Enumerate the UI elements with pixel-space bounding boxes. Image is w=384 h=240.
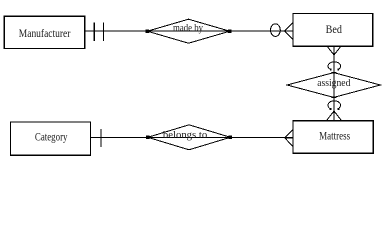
wire — [91, 137, 294, 139]
entity Mattress — [293, 121, 373, 154]
zero circle on assigned/Mattress wire — [328, 101, 341, 110]
junction dot at belongs-to left vertex — [146, 136, 149, 139]
relationship diamond "belongs to" — [148, 125, 231, 150]
svg-text:belongs to: belongs to — [163, 129, 208, 141]
svg-text:Bed: Bed — [326, 22, 342, 36]
entity Bed — [293, 14, 373, 47]
entity Category — [11, 122, 91, 155]
relationship diamond "assigned" — [287, 73, 380, 98]
relationship diamond "made by" — [147, 19, 230, 43]
wire — [333, 46, 335, 121]
crow's foot (many) at Bed bottom edge — [327, 46, 341, 55]
crow's foot (many) at Bed left edge — [285, 23, 293, 40]
svg-text:assigned: assigned — [317, 77, 351, 89]
cardinality bar (one) at Category — [100, 129, 102, 147]
crow's foot (many) at Mattress left edge — [285, 129, 293, 147]
svg-text:Mattress: Mattress — [319, 129, 350, 143]
cardinality bars (one-and-only-one) at Manufacturer — [94, 22, 103, 40]
svg-text:Category: Category — [35, 130, 68, 144]
junction dot at made-by right vertex — [228, 30, 231, 33]
wire — [85, 30, 293, 32]
junction dot at made-by left vertex — [146, 30, 149, 33]
crow's foot (many) at Mattress top edge — [327, 111, 342, 121]
entity Manufacturer — [4, 16, 84, 48]
svg-text:Manufacturer: Manufacturer — [19, 26, 71, 40]
junction dot at assigned top vertex — [331, 72, 336, 74]
zero circle on made-by/Bed wire — [271, 24, 281, 37]
junction dot at assigned bottom vertex — [331, 96, 336, 98]
zero circle on Bed/assigned wire — [328, 62, 341, 70]
svg-text:made by: made by — [173, 22, 203, 34]
junction dot at belongs-to right vertex — [229, 136, 232, 139]
